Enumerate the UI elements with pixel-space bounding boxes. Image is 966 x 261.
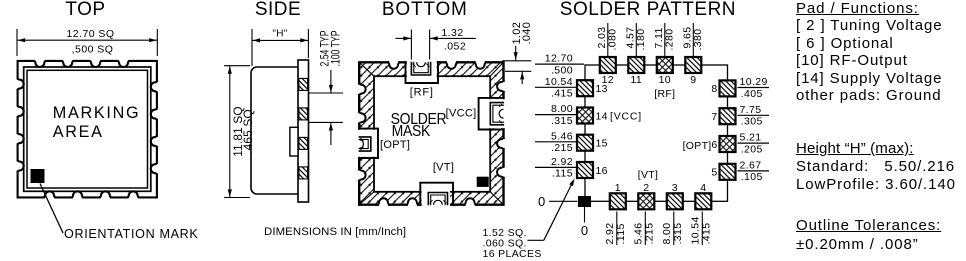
svg-text:8: 8 [711,83,717,95]
svg-text:[VCC]: [VCC] [446,108,477,120]
svg-text:6: 6 [711,139,717,151]
svg-text:15: 15 [596,138,608,150]
svg-text:2: 2 [643,182,649,194]
svg-text:12.70: 12.70 [545,53,573,65]
svg-text:.180: .180 [635,28,647,50]
svg-text:.405: .405 [741,88,763,100]
svg-text:10: 10 [659,74,671,86]
svg-text:2.92: 2.92 [551,156,573,168]
svg-text:8.00: 8.00 [551,103,573,115]
svg-text:9: 9 [690,74,696,86]
svg-text:.115: .115 [615,223,627,244]
svg-text:7: 7 [711,111,717,123]
svg-text:16 PLACES: 16 PLACES [483,248,542,260]
svg-text:.100 TYP: .100 TYP [329,30,343,66]
svg-text:5: 5 [711,167,717,179]
svg-text:.105: .105 [741,171,763,183]
svg-text:BOTTOM: BOTTOM [382,0,468,20]
svg-text:1.32: 1.32 [441,27,463,39]
svg-text:[VT]: [VT] [638,169,658,181]
svg-text:[VCC]: [VCC] [610,110,642,122]
svg-text:.215: .215 [643,222,655,244]
svg-text:.115: .115 [552,168,573,180]
svg-text:11: 11 [631,74,643,86]
svg-text:7.75: 7.75 [740,104,762,116]
svg-text:5.21: 5.21 [740,132,762,144]
svg-text:.500: .500 [551,64,573,76]
svg-text:12.70 SQ: 12.70 SQ [67,28,115,40]
svg-text:.215: .215 [551,142,573,154]
svg-text:0: 0 [581,223,588,238]
svg-text:14: 14 [596,110,608,122]
svg-text:SOLDER PATTERN: SOLDER PATTERN [560,0,736,20]
svg-text:.205: .205 [741,143,763,155]
svg-text:.415: .415 [551,88,573,100]
svg-text:.315: .315 [551,115,573,127]
svg-text:.040: .040 [521,22,533,45]
svg-text:,500 SQ: ,500 SQ [72,44,114,56]
svg-text:0: 0 [538,194,545,209]
svg-text:ORIENTATION MARK: ORIENTATION MARK [64,227,198,241]
svg-text:MASK: MASK [392,122,431,140]
svg-text:5.46: 5.46 [551,130,573,142]
svg-text:4: 4 [700,182,706,194]
svg-text:[VT]: [VT] [433,162,454,174]
svg-text:[OPT]: [OPT] [380,139,410,151]
svg-text:13: 13 [596,83,608,95]
svg-text:"H": "H" [272,29,287,40]
svg-text:[OPT]: [OPT] [683,140,712,152]
svg-text:.380: .380 [692,28,704,50]
svg-text:1: 1 [615,182,621,194]
svg-text:DIMENSIONS IN [mm/Inch]: DIMENSIONS IN [mm/Inch] [264,226,406,238]
svg-text:SIDE: SIDE [255,0,301,20]
svg-text:10.54: 10.54 [545,76,573,88]
svg-text:.080: .080 [607,28,619,50]
svg-text:.465 SQ: .465 SQ [241,109,255,154]
svg-text:3: 3 [672,182,678,194]
svg-text:.280: .280 [664,28,676,50]
svg-text:.315: .315 [672,222,684,244]
svg-text:2.67: 2.67 [740,160,762,172]
svg-text:10.29: 10.29 [740,76,768,88]
svg-text:AREA: AREA [53,123,104,141]
svg-text:.415: .415 [700,222,712,244]
svg-text:MARKING: MARKING [53,104,140,122]
svg-text:TOP: TOP [65,0,105,20]
svg-text:.305: .305 [741,116,763,128]
svg-text:.052: .052 [444,40,466,52]
svg-text:[RF]: [RF] [410,86,434,98]
svg-text:[RF]: [RF] [654,88,675,100]
svg-text:16: 16 [596,165,608,177]
